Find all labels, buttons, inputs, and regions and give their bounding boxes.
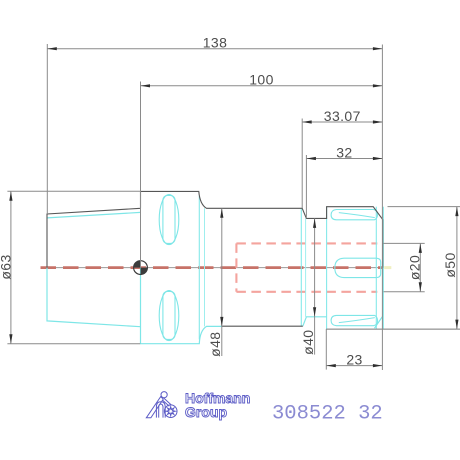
Hoffmann Group logo icon (146, 392, 177, 418)
cyan taper inner wall line (47, 212, 141, 218)
svg-text:33.07: 33.07 (324, 108, 361, 124)
hidden bore dashed pink bottom (236, 291, 377, 293)
centerline red dashes (41, 266, 384, 269)
dimension 33.07 (302, 108, 382, 208)
svg-text:308522 32: 308522 32 (272, 402, 383, 425)
dimension 138 (47, 35, 382, 370)
dimension ø50 (388, 207, 460, 330)
flange slot lower inner (163, 291, 175, 339)
svg-text:138: 138 (203, 35, 228, 51)
center mark (134, 261, 148, 275)
dimension 32 (306, 144, 382, 218)
cyan lower outline groove (303, 317, 327, 326)
nut slot top inner line (339, 213, 375, 218)
dimension ø48 (207, 208, 223, 357)
cyan silhouette vertical fillet tangent (204, 208, 206, 326)
cyan lower outline nut chamfer (375, 268, 383, 329)
black nut bottom edge merged with ø50 extension (326, 328, 460, 330)
svg-text:ø48: ø48 (207, 332, 223, 357)
svg-text:ø63: ø63 (0, 254, 14, 279)
cyan lower outline flange (141, 268, 223, 344)
cyan silhouette vertical flange right face (198, 196, 200, 340)
dimension 100 (141, 72, 383, 268)
black upper outline taper and flange (47, 191, 383, 267)
cyan silhouette vertical nut chamfer tangent (375, 207, 377, 329)
centerline yellow tip (384, 266, 391, 269)
cyan silhouette vertical groove edge (305, 218, 307, 316)
svg-text:Group: Group (185, 404, 227, 420)
cyan lower outline taper (47, 268, 141, 327)
hidden bore dashed pink top (236, 242, 377, 244)
svg-text:23: 23 (346, 351, 362, 367)
dimension 23 (326, 329, 382, 370)
nut slot top outer (331, 210, 378, 220)
flange slot upper outer (159, 195, 179, 245)
cyan nut right face (382, 207, 384, 329)
dimension ø20 (384, 243, 425, 291)
dimension ø63 (0, 191, 140, 343)
cyan nut left face (326, 207, 328, 329)
dimension ø40 (300, 218, 316, 354)
svg-text:ø50: ø50 (442, 252, 458, 277)
svg-text:100: 100 (249, 72, 274, 88)
hidden bore dashed pink left (235, 243, 237, 291)
nut slot bottom outer (331, 315, 378, 325)
centerline gray solid underlay (41, 267, 384, 269)
nut slot bottom inner line (339, 318, 375, 323)
svg-text:ø40: ø40 (300, 330, 316, 355)
nut slot middle outer (335, 258, 381, 277)
flange slot lower outer (159, 291, 179, 341)
svg-text:ø20: ø20 (406, 255, 422, 280)
flange slot upper inner (163, 195, 175, 243)
svg-text:32: 32 (336, 144, 352, 160)
black ø48 bottom segment (222, 325, 303, 327)
cyan silhouette vertical chamfer start (300, 208, 302, 326)
